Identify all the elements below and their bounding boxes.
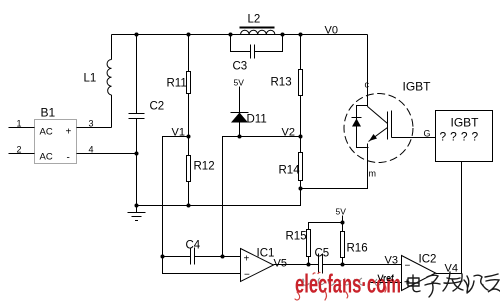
wire box bottom to V4 [436,162,462,274]
transformer B1 [35,106,77,164]
node L2 left [229,33,233,37]
wire pin 2 [9,145,35,155]
capacitor C2 [129,35,165,206]
svg-text:C4: C4 [186,240,201,252]
svg-text:−: − [405,261,411,272]
svg-text:V5: V5 [274,258,287,270]
node R14 bottom [299,187,303,191]
emitter diagonal w/ arrow [369,128,388,142]
igbt bars [387,112,389,140]
node V1/R11/R12 [187,135,191,139]
svg-text:5V: 5V [336,207,347,217]
svg-text:C2: C2 [150,101,165,113]
wire Vref input [371,274,402,284]
node Vref label overlay [378,273,411,289]
svg-text:m: m [369,169,377,179]
svg-text:V3: V3 [385,255,398,267]
IGBT driver box U [436,111,493,162]
watermark red script accents [295,272,386,300]
svg-text:R12: R12 [194,161,215,173]
power 5V above R16 [336,207,347,225]
svg-text:L1: L1 [84,73,97,85]
svg-text:IC2: IC2 [419,254,437,266]
svg-text:V0: V0 [325,25,338,37]
inductor L1 [84,60,112,96]
svg-text:+: + [244,254,250,265]
svg-text:IGBT: IGBT [451,116,480,130]
node L2 right [281,33,285,37]
svg-text:IC1: IC1 [257,248,275,260]
wire L1 vertical [111,35,113,60]
svg-text:R16: R16 [347,243,368,255]
collector diagonal [368,107,388,124]
svg-text:R11: R11 [167,78,187,90]
svg-text:3: 3 [89,119,94,129]
wire V2 [223,127,301,257]
svg-text:R13: R13 [271,77,292,89]
wire collector [367,35,369,107]
resistor R13 [271,35,303,137]
transistor IGBT symbol [344,80,431,179]
svg-text:R15: R15 [286,231,307,243]
svg-text:4: 4 [89,145,94,155]
ground [128,206,146,221]
svg-text:L2: L2 [248,14,261,26]
resistor R11 [167,35,191,137]
power 5V above D11 [234,78,245,113]
svg-text:5V: 5V [234,78,245,88]
svg-text:-: - [67,153,70,164]
node D11 bottom [238,135,242,139]
node pin4/C2 [135,152,139,156]
wire IC1 minus input [163,257,241,274]
resistor R15 [286,223,343,265]
node rail/R12 [187,204,191,208]
svg-text:AC: AC [40,152,53,163]
svg-text:−: − [244,270,250,281]
op-amp IC2 [402,254,437,291]
wire V1 [163,127,189,257]
svg-text:V4: V4 [445,263,458,275]
diode inside [357,106,369,148]
svg-text:+: + [66,127,72,138]
svg-text:G: G [424,129,431,139]
capacitor C4 [163,240,241,265]
node R15 bottom [307,263,311,267]
svg-text:+: + [404,278,410,289]
node R11 top [187,33,191,37]
svg-text:R14: R14 [279,165,301,177]
resistor R12 [187,137,215,206]
wire gate [392,129,436,139]
watermark red elecfans.com [295,269,401,298]
svg-text:Vref: Vref [378,273,395,283]
svg-text:V2: V2 [282,127,295,139]
node rail/C2 [135,204,139,208]
node C4 right [221,255,225,259]
svg-text:D11: D11 [247,114,267,126]
wire emitter to R14 [301,144,368,189]
watermark gray script [302,278,381,286]
wire ground rail [137,189,301,206]
op-amp IC1 [241,248,275,282]
node V2/R13/R14 [299,135,303,139]
node C4 left [161,255,165,259]
wire top rail [112,34,368,36]
diode D11 [231,113,267,137]
wire pin 3 [77,119,112,129]
svg-text:V1: V1 [172,127,185,139]
wire emitter lower [367,144,369,189]
node R13 top [299,33,303,37]
svg-text:C3: C3 [233,61,248,73]
wire pin 1 [9,119,35,129]
wire V5 output [274,258,402,270]
wire pin 4 [77,145,137,155]
svg-text:C5: C5 [315,248,330,260]
node C2 top [135,33,139,37]
svg-text:AC: AC [40,127,53,138]
svg-text:c: c [365,80,370,90]
watermark chinese script [408,272,500,297]
resistor R16 [341,223,368,265]
svg-text:B1: B1 [41,106,56,120]
svg-text:1: 1 [17,119,22,129]
svg-text:2: 2 [17,145,22,155]
inductor L2 [240,14,275,35]
node R16 bottom [341,263,345,267]
capacitor C3 branch [231,35,283,73]
capacitor C5 [315,248,330,274]
resistor R14 [279,137,303,189]
svg-text:IGBT: IGBT [403,80,432,94]
svg-text:????: ???? [440,130,483,144]
